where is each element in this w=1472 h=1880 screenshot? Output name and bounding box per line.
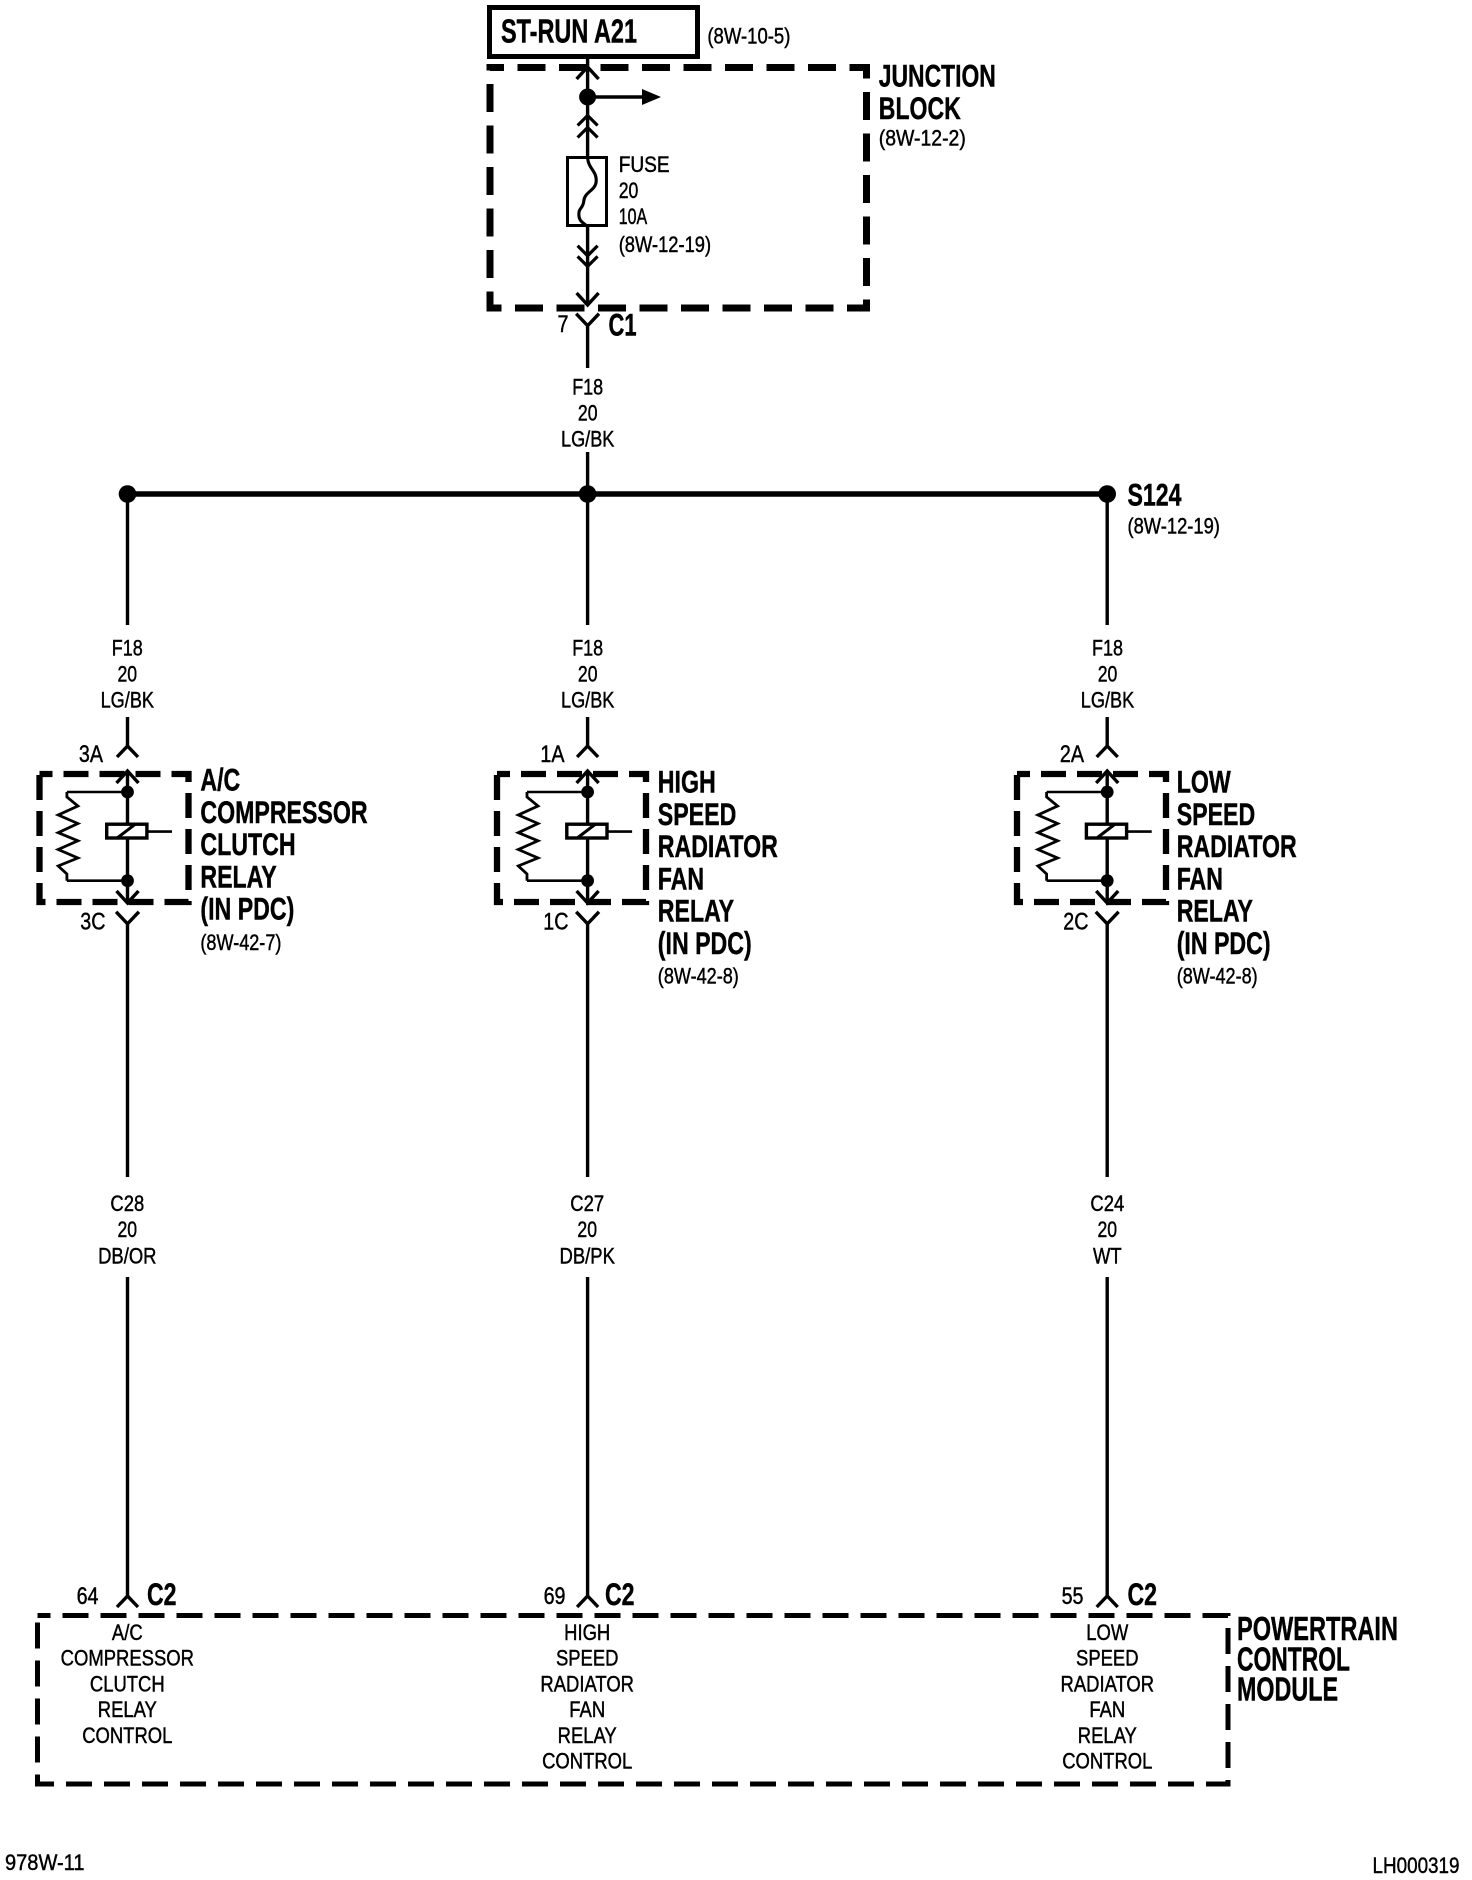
junction block boundary: [490, 68, 867, 309]
svg-text:A/C: A/C: [200, 762, 240, 798]
relay coil: [1086, 824, 1126, 838]
svg-text:JUNCTION: JUNCTION: [879, 58, 996, 94]
wire branch to junction block loads: [588, 95, 643, 99]
svg-text:A/C: A/C: [112, 1620, 143, 1645]
svg-text:COMPRESSOR: COMPRESSOR: [200, 794, 367, 830]
connector pin 3C fork: [116, 912, 139, 924]
svg-text:20: 20: [118, 1217, 138, 1242]
svg-text:(8W-42-8): (8W-42-8): [658, 964, 739, 989]
svg-text:F18: F18: [1092, 636, 1123, 661]
svg-text:WT: WT: [1093, 1244, 1122, 1269]
resistor relay coil suppression: [518, 792, 538, 881]
svg-text:RELAY: RELAY: [558, 1723, 617, 1748]
wire branch to relay: [1105, 717, 1108, 746]
wire branch from splice: [586, 494, 589, 625]
svg-text:FAN: FAN: [1089, 1697, 1125, 1722]
wire relay coil bottom: [586, 838, 589, 903]
node relay coil bottom: [1101, 874, 1114, 887]
wire relay to PCM upper: [1105, 924, 1108, 1177]
svg-text:CONTROL: CONTROL: [542, 1749, 632, 1774]
wire to resistor: [527, 791, 588, 794]
svg-text:HIGH: HIGH: [658, 764, 716, 800]
svg-text:1A: 1A: [540, 741, 564, 768]
svg-text:(8W-12-19): (8W-12-19): [1128, 514, 1220, 539]
wire branch from splice: [126, 494, 129, 625]
svg-text:SPEED: SPEED: [556, 1646, 619, 1671]
node relay coil bottom: [121, 874, 134, 887]
svg-text:69: 69: [544, 1583, 566, 1610]
relay coil: [567, 824, 607, 838]
bus wire S124: [128, 491, 1108, 496]
power feed box ST-RUN A21: [490, 8, 698, 57]
resistor relay coil suppression: [58, 792, 78, 881]
svg-text:FAN: FAN: [569, 1697, 605, 1722]
svg-text:20: 20: [578, 401, 598, 426]
chevron pair below fuse lower: [578, 256, 598, 266]
svg-text:(IN PDC): (IN PDC): [1177, 925, 1271, 961]
svg-text:978W-11: 978W-11: [5, 1850, 85, 1875]
relay coil lead: [1127, 830, 1152, 833]
svg-text:RELAY: RELAY: [658, 893, 734, 929]
svg-text:20: 20: [118, 662, 138, 687]
wire ST-RUN A21 to junction block: [586, 59, 589, 97]
wire fuse to connector C1: [586, 227, 589, 305]
svg-text:RELAY: RELAY: [1177, 893, 1253, 929]
arrow into junction block: [577, 67, 599, 79]
wire to PCM: [126, 1277, 129, 1596]
svg-text:(8W-12-19): (8W-12-19): [619, 232, 711, 257]
svg-text:CLUTCH: CLUTCH: [200, 826, 295, 862]
connector C2 pin 69 fork: [577, 1596, 598, 1607]
connector C2 pin 55 fork: [1097, 1596, 1118, 1607]
svg-text:CONTROL: CONTROL: [1062, 1749, 1152, 1774]
fuse element curve: [579, 158, 596, 227]
chevron pair lower: [578, 128, 598, 138]
relay boundary: [497, 774, 646, 902]
arrow into relay: [117, 771, 139, 783]
svg-text:F18: F18: [572, 636, 603, 661]
wire relay coil top: [126, 771, 129, 824]
fuse 20 10A: [568, 158, 607, 226]
svg-text:MODULE: MODULE: [1237, 1671, 1338, 1708]
svg-text:(8W-10-5): (8W-10-5): [707, 24, 790, 49]
svg-text:RADIATOR: RADIATOR: [658, 828, 778, 864]
chevron pair below fuse upper: [578, 246, 598, 256]
relay coil diagonal: [577, 824, 596, 839]
relay coil lead: [147, 830, 172, 833]
svg-text:COMPRESSOR: COMPRESSOR: [61, 1646, 194, 1671]
svg-text:2C: 2C: [1063, 909, 1088, 936]
relay coil diagonal: [1096, 824, 1115, 839]
wire to resistor: [1047, 791, 1108, 794]
svg-text:RELAY: RELAY: [1078, 1723, 1137, 1748]
node splice left: [119, 485, 137, 503]
node splice S124 center: [579, 485, 597, 503]
resistor relay coil suppression: [1038, 792, 1058, 881]
svg-text:7: 7: [558, 311, 569, 338]
svg-text:(8W-42-7): (8W-42-7): [200, 930, 281, 955]
connector C2 pin 64 fork: [117, 1596, 138, 1607]
connector pin 2A fork: [1097, 746, 1118, 757]
wire splice to fuse: [586, 97, 589, 157]
connector C1 fork: [576, 314, 599, 326]
svg-text:3A: 3A: [79, 741, 103, 768]
powertrain control module boundary: [38, 1616, 1229, 1785]
svg-text:C2: C2: [605, 1576, 635, 1612]
svg-text:C2: C2: [147, 1576, 177, 1612]
arrow out of relay: [1096, 891, 1118, 903]
relay boundary: [1017, 774, 1166, 902]
relay coil lead: [607, 830, 632, 833]
svg-text:C28: C28: [110, 1191, 144, 1216]
svg-text:BLOCK: BLOCK: [879, 90, 961, 126]
svg-text:SPEED: SPEED: [658, 796, 737, 832]
wire to resistor: [67, 791, 128, 794]
relay coil: [107, 824, 147, 838]
wire C1 to splice S124: [586, 326, 589, 368]
svg-text:LH000319: LH000319: [1373, 1853, 1460, 1878]
wire to PCM: [586, 1277, 589, 1596]
arrow out of junction block: [577, 293, 599, 305]
wire resistor to coil bottom: [67, 879, 128, 882]
svg-text:20: 20: [619, 178, 639, 203]
svg-text:RADIATOR: RADIATOR: [1177, 828, 1297, 864]
svg-text:20: 20: [1098, 662, 1118, 687]
arrowhead junction block branch: [642, 89, 661, 105]
wire resistor to coil bottom: [1047, 879, 1108, 882]
svg-text:20: 20: [578, 662, 598, 687]
svg-text:SPEED: SPEED: [1177, 796, 1256, 832]
wire branch from splice: [1105, 494, 1108, 625]
wire branch to relay: [126, 717, 129, 746]
svg-text:LG/BK: LG/BK: [1081, 688, 1134, 713]
svg-text:RELAY: RELAY: [98, 1697, 157, 1722]
svg-text:(8W-42-8): (8W-42-8): [1177, 964, 1258, 989]
svg-text:20: 20: [1098, 1217, 1118, 1242]
svg-text:CLUTCH: CLUTCH: [90, 1671, 165, 1696]
svg-text:ST-RUN A21: ST-RUN A21: [501, 13, 637, 50]
svg-text:HIGH: HIGH: [564, 1620, 610, 1645]
node relay coil top: [121, 786, 134, 799]
svg-text:C2: C2: [1128, 1576, 1158, 1612]
wire branch to relay: [586, 717, 589, 746]
svg-text:LOW: LOW: [1177, 764, 1231, 800]
relay boundary: [40, 774, 189, 902]
node junction block splice: [579, 89, 596, 106]
node relay coil top: [1101, 786, 1114, 799]
wire resistor to coil bottom: [527, 879, 588, 882]
connector pin 1A fork: [577, 746, 598, 757]
wire to splice S124 lower: [586, 452, 589, 494]
svg-text:20: 20: [577, 1217, 597, 1242]
svg-text:S124: S124: [1128, 476, 1182, 512]
svg-text:C1: C1: [609, 307, 637, 343]
wire relay coil top: [586, 771, 589, 824]
svg-text:DB/PK: DB/PK: [560, 1244, 615, 1269]
wire relay to PCM upper: [586, 924, 589, 1177]
node relay coil top: [581, 786, 594, 799]
wire relay coil top: [1105, 771, 1108, 824]
relay coil diagonal: [117, 824, 136, 839]
svg-text:64: 64: [77, 1583, 99, 1610]
svg-text:F18: F18: [572, 375, 603, 400]
svg-text:C24: C24: [1090, 1191, 1124, 1216]
wire relay to PCM upper: [126, 924, 129, 1177]
svg-text:RADIATOR: RADIATOR: [540, 1671, 634, 1696]
svg-text:1C: 1C: [543, 909, 568, 936]
chevron pair upper: [578, 116, 598, 126]
svg-text:RADIATOR: RADIATOR: [1061, 1671, 1155, 1696]
wire to PCM: [1105, 1277, 1108, 1596]
arrow into relay: [1096, 771, 1118, 783]
svg-text:FUSE: FUSE: [619, 152, 670, 177]
connector pin 3A fork: [117, 746, 138, 757]
svg-text:C27: C27: [570, 1191, 604, 1216]
svg-text:LG/BK: LG/BK: [561, 427, 614, 452]
svg-text:FAN: FAN: [1177, 860, 1223, 896]
svg-text:(8W-12-2): (8W-12-2): [879, 126, 966, 151]
svg-text:3C: 3C: [80, 909, 105, 936]
svg-text:LG/BK: LG/BK: [561, 688, 614, 713]
svg-text:DB/OR: DB/OR: [98, 1244, 156, 1269]
wire relay coil bottom: [126, 838, 129, 903]
node splice S124 right: [1098, 485, 1116, 503]
arrow out of relay: [117, 891, 139, 903]
connector pin 2C fork: [1096, 912, 1119, 924]
svg-text:(IN PDC): (IN PDC): [200, 891, 294, 927]
arrow into relay: [577, 771, 599, 783]
connector pin 1C fork: [576, 912, 599, 924]
svg-text:FAN: FAN: [658, 860, 704, 896]
svg-text:55: 55: [1062, 1583, 1084, 1610]
svg-text:LOW: LOW: [1086, 1620, 1129, 1645]
node relay coil bottom: [581, 874, 594, 887]
svg-text:2A: 2A: [1060, 741, 1084, 768]
svg-text:LG/BK: LG/BK: [101, 688, 154, 713]
wire relay coil bottom: [1105, 838, 1108, 903]
svg-text:(IN PDC): (IN PDC): [658, 925, 752, 961]
arrow out of relay: [577, 891, 599, 903]
svg-text:SPEED: SPEED: [1076, 1646, 1139, 1671]
svg-text:F18: F18: [112, 636, 143, 661]
svg-text:10A: 10A: [619, 204, 648, 229]
svg-text:CONTROL: CONTROL: [82, 1723, 172, 1748]
svg-text:RELAY: RELAY: [200, 858, 276, 894]
